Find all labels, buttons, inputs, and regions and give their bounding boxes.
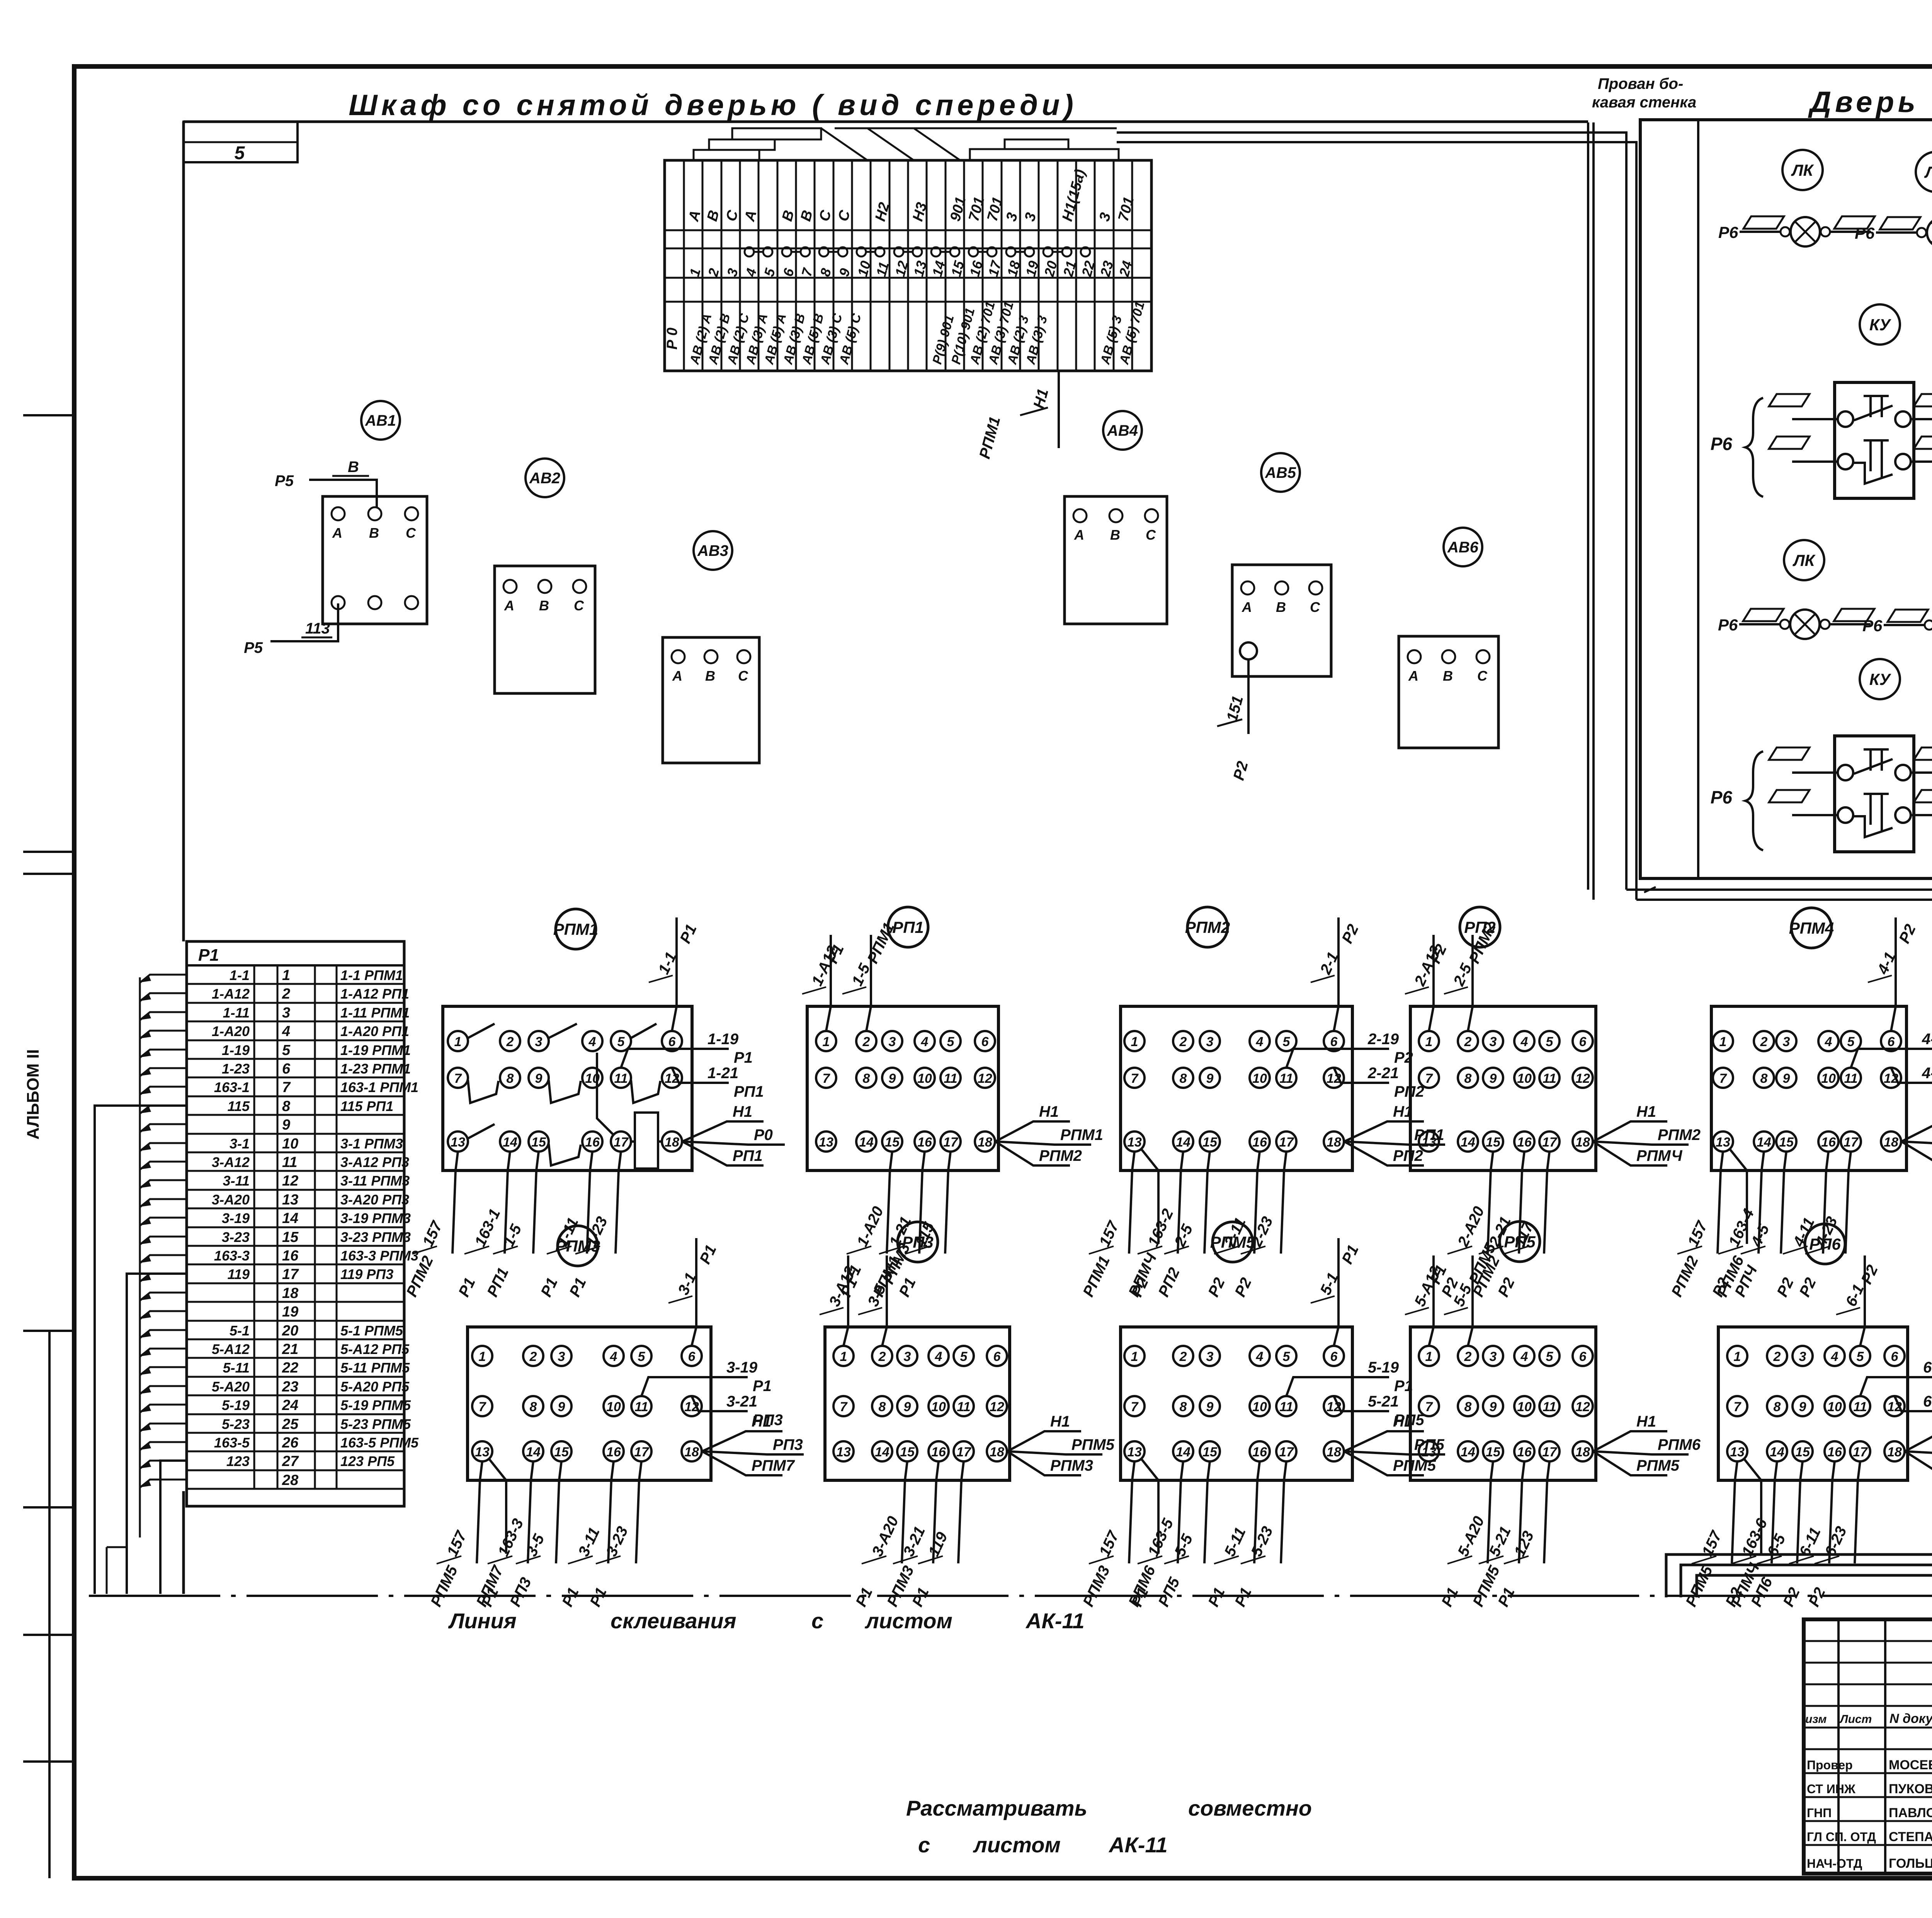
svg-text:3-А20 РП3: 3-А20 РП3 [340,1192,409,1208]
svg-text:АВ2: АВ2 [529,470,560,487]
svg-text:18: 18 [1884,1135,1898,1150]
svg-text:17: 17 [1279,1135,1294,1150]
svg-text:16: 16 [1827,1445,1842,1459]
svg-text:4: 4 [935,1349,942,1364]
wire [1334,1238,1338,1346]
svg-text:6: 6 [1330,1349,1338,1364]
svg-text:11: 11 [944,1071,957,1086]
wire [1905,1451,1932,1454]
svg-text:115: 115 [228,1098,250,1114]
svg-text:123: 123 [226,1453,250,1469]
svg-text:13: 13 [1127,1135,1142,1150]
svg-text:9: 9 [1206,1400,1214,1414]
svg-text:23: 23 [282,1379,298,1395]
svg-text:5-11 РПМ5: 5-11 РПМ5 [340,1360,410,1376]
svg-text:5: 5 [960,1349,968,1364]
svg-text:5: 5 [1283,1349,1291,1364]
svg-text:Лист: Лист [1839,1713,1872,1726]
wire [1281,1461,1286,1563]
svg-text:10: 10 [917,1071,932,1086]
wire [882,1255,887,1346]
wire [1178,1461,1183,1563]
svg-text:3: 3 [535,1035,543,1049]
svg-text:1-23: 1-23 [222,1061,250,1077]
wire [1286,1049,1389,1068]
switch label KU 2 [1860,659,1900,699]
svg-text:15: 15 [885,1135,900,1150]
automat АВ6 [1444,528,1482,566]
svg-text:163-5 РПМ5: 163-5 РПМ5 [340,1435,419,1451]
svg-text:РПМЧ: РПМЧ [1636,1147,1682,1164]
wire [672,917,677,1031]
svg-text:РПМ7: РПМ7 [752,1457,795,1474]
relay coil [635,1113,658,1169]
svg-text:ЛЗ: ЛЗ [1924,163,1932,181]
svg-text:16: 16 [1517,1135,1532,1150]
svg-text:АВ4: АВ4 [1107,422,1138,439]
svg-text:1: 1 [1131,1035,1138,1049]
svg-text:18: 18 [1575,1135,1590,1150]
wire [1254,1152,1260,1254]
svg-text:Провер: Провер [1807,1758,1853,1772]
contact [549,1080,581,1103]
svg-text:5-1: 5-1 [230,1323,250,1339]
svg-text:7: 7 [1131,1400,1139,1414]
svg-text:ПУКОВА: ПУКОВА [1889,1782,1932,1796]
svg-text:С: С [1310,599,1320,615]
svg-text:24: 24 [282,1397,298,1413]
svg-text:А: А [672,668,682,684]
svg-text:14: 14 [859,1135,874,1150]
svg-text:16: 16 [282,1248,299,1264]
svg-text:РПМ5: РПМ5 [1210,1233,1255,1251]
relay РП3 [898,1222,938,1262]
wire [1901,1121,1932,1142]
svg-text:20: 20 [282,1323,298,1339]
wire [489,1459,506,1554]
svg-text:14: 14 [1176,1135,1190,1150]
svg-text:17: 17 [956,1445,972,1459]
svg-text:5-А20: 5-А20 [212,1379,250,1395]
terminal table P1 stub wires [140,975,187,982]
svg-text:КУ: КУ [1869,316,1892,334]
svg-text:113: 113 [305,620,330,637]
svg-text:С: С [1146,527,1156,543]
svg-text:РПМ2: РПМ2 [1039,1147,1082,1164]
svg-text:12: 12 [1575,1400,1590,1414]
wire [1254,1461,1260,1563]
svg-text:13: 13 [1730,1445,1745,1459]
svg-text:13: 13 [1422,1445,1436,1459]
svg-text:СТЕПАНЕНКО: СТЕПАНЕНКО [1889,1830,1932,1844]
svg-text:3-А12: 3-А12 [212,1154,250,1170]
svg-text:15: 15 [282,1229,299,1245]
wire [1759,1152,1764,1254]
corner box [184,122,298,162]
svg-text:15: 15 [1779,1135,1794,1150]
title block [1804,1619,1932,1874]
svg-text:Р1: Р1 [753,1378,772,1395]
wire [1468,935,1473,1031]
svg-text:9: 9 [1206,1071,1214,1086]
svg-text:С: С [738,668,748,684]
svg-text:9: 9 [282,1117,290,1133]
cabinet left edge lower [182,1491,185,1594]
svg-text:10: 10 [1517,1071,1532,1086]
svg-text:119: 119 [228,1266,250,1282]
svg-text:10: 10 [931,1400,946,1414]
svg-text:С: С [574,598,584,613]
harness wire to door 1 [1117,133,1626,890]
wire [505,1152,510,1254]
svg-text:10: 10 [606,1400,621,1414]
svg-text:1-А12: 1-А12 [212,986,250,1002]
wire [1344,1121,1424,1142]
wire [844,1255,848,1346]
svg-text:9: 9 [904,1400,911,1414]
svg-text:27: 27 [282,1453,299,1470]
wire [1141,1149,1158,1244]
svg-text:В: В [369,525,379,541]
svg-text:18: 18 [1327,1135,1341,1150]
harness wire to door 2 [1117,142,1636,900]
wire [1891,917,1896,1031]
cabinet duct line 2 [1592,122,1595,900]
svg-text:ПАВЛОВА: ПАВЛОВА [1889,1806,1932,1820]
svg-text:3: 3 [1490,1349,1497,1364]
svg-text:10: 10 [1821,1071,1836,1086]
contact [549,1024,577,1038]
wire [1344,1142,1424,1165]
svg-text:АК-11: АК-11 [1108,1833,1168,1857]
svg-text:5-19 РПМ5: 5-19 РПМ5 [340,1397,411,1413]
svg-text:7: 7 [1131,1071,1139,1086]
wire [1129,1152,1134,1254]
svg-text:12: 12 [978,1071,992,1086]
svg-text:2: 2 [862,1035,870,1049]
wire [1855,1461,1860,1563]
svg-text:СТ ИНЖ: СТ ИНЖ [1807,1782,1856,1796]
svg-text:РПМ1: РПМ1 [1060,1126,1103,1143]
wire [945,1152,951,1254]
svg-text:с: с [811,1609,823,1633]
svg-text:17: 17 [1542,1445,1558,1459]
wire [995,1142,1091,1145]
wire [692,1238,696,1346]
wire H1 from strip [1058,371,1060,448]
svg-text:15: 15 [531,1135,546,1150]
svg-text:5: 5 [235,143,245,163]
svg-text:14: 14 [503,1135,517,1150]
svg-text:19: 19 [282,1304,298,1320]
svg-text:15: 15 [1486,1135,1501,1150]
svg-text:7: 7 [1734,1400,1742,1414]
AB5 extra terminal [1240,642,1257,659]
automat АВ2 [526,459,564,497]
svg-text:листом: листом [973,1833,1061,1857]
wire [1429,1255,1434,1346]
svg-text:3: 3 [1783,1035,1790,1049]
terminal table P1 [187,941,404,1506]
svg-text:1: 1 [454,1035,462,1049]
svg-text:1: 1 [479,1349,486,1364]
svg-text:3-1 РПМ3: 3-1 РПМ3 [340,1136,403,1152]
svg-text:1: 1 [840,1349,847,1364]
svg-text:17: 17 [634,1445,650,1459]
wire [1593,1451,1689,1454]
svg-text:9: 9 [535,1071,543,1086]
door panel inner edge [1697,120,1699,878]
svg-text:16: 16 [1252,1135,1267,1150]
svg-text:ЛК: ЛК [1793,551,1816,569]
wire [702,1451,782,1475]
wire [452,1152,458,1254]
svg-text:6: 6 [688,1349,696,1364]
svg-text:4: 4 [610,1349,617,1364]
svg-text:7: 7 [454,1071,463,1086]
svg-text:5-А12: 5-А12 [212,1341,250,1357]
svg-text:5-23: 5-23 [222,1416,250,1432]
wire [1851,1049,1932,1068]
svg-text:ГОЛЬЦМАН: ГОЛЬЦМАН [1889,1856,1932,1871]
svg-text:18: 18 [684,1445,699,1459]
cabinet left edge [182,122,185,941]
svg-text:3-11 РПМ3: 3-11 РПМ3 [340,1173,410,1189]
svg-text:4: 4 [1256,1349,1264,1364]
svg-text:6: 6 [1579,1349,1587,1364]
svg-text:РПМ4: РПМ4 [1789,919,1834,937]
wire [1901,1142,1932,1165]
wire [1519,1461,1524,1563]
svg-text:9: 9 [889,1071,896,1086]
bottom bus wire 1 [1666,1554,1932,1597]
svg-text:2: 2 [1464,1035,1472,1049]
svg-text:1: 1 [1734,1349,1741,1364]
svg-text:8: 8 [1180,1071,1187,1086]
bottom bus wire 2 [1681,1565,1932,1597]
svg-text:1-21: 1-21 [707,1065,738,1082]
svg-text:3-21: 3-21 [726,1393,757,1410]
svg-text:3-23 РПМ3: 3-23 РПМ3 [340,1229,411,1245]
svg-text:14: 14 [1757,1135,1771,1150]
wire [1334,917,1338,1031]
wire [672,1068,729,1083]
relay РП2 [1460,907,1500,947]
svg-text:18: 18 [1327,1445,1341,1459]
svg-text:5-21: 5-21 [1368,1393,1399,1410]
svg-text:13: 13 [451,1135,465,1150]
svg-text:15: 15 [1202,1135,1218,1150]
wire P5-B to AB1 [309,480,377,507]
svg-text:1-19: 1-19 [222,1042,250,1058]
wire [1488,1461,1493,1563]
svg-text:8: 8 [1464,1071,1472,1086]
svg-text:7: 7 [1425,1400,1434,1414]
svg-text:2: 2 [282,986,290,1002]
lamp label LK 2 [1784,540,1824,580]
svg-text:6: 6 [668,1035,676,1049]
wire [995,1121,1070,1142]
svg-text:3: 3 [1206,1035,1214,1049]
svg-text:5-23 РПМ5: 5-23 РПМ5 [340,1416,411,1432]
svg-text:1: 1 [282,967,290,984]
svg-text:Р6: Р6 [1718,223,1738,241]
svg-text:РПМ3: РПМ3 [1050,1457,1093,1474]
wire [1141,1459,1158,1554]
wire [1007,1451,1081,1475]
svg-text:5-11: 5-11 [223,1360,250,1376]
wire [1730,1149,1747,1244]
svg-text:РПМ1: РПМ1 [553,920,599,938]
wire [1129,1461,1134,1563]
svg-text:РП1: РП1 [734,1083,764,1100]
wire [682,1142,785,1145]
svg-text:1: 1 [1719,1035,1727,1049]
svg-text:7: 7 [282,1079,291,1096]
svg-text:АВ5: АВ5 [1265,464,1296,481]
svg-text:11: 11 [1853,1400,1867,1414]
svg-text:15: 15 [1202,1445,1218,1459]
wire [533,1152,539,1254]
svg-text:13: 13 [819,1135,833,1150]
svg-text:1-А12 РП1: 1-А12 РП1 [340,986,409,1002]
svg-text:склеивания: склеивания [611,1609,736,1633]
svg-text:1-А20 РП1: 1-А20 РП1 [340,1023,409,1039]
svg-text:28: 28 [282,1472,299,1488]
svg-text:7: 7 [479,1400,487,1414]
svg-text:6: 6 [993,1349,1001,1364]
wire [1344,1142,1445,1145]
svg-text:Н1: Н1 [1050,1413,1070,1430]
svg-text:2: 2 [878,1349,886,1364]
svg-text:13: 13 [475,1445,490,1459]
svg-text:25: 25 [282,1416,299,1432]
svg-text:2: 2 [1464,1349,1472,1364]
svg-text:5-А20 РП5: 5-А20 РП5 [340,1379,410,1395]
svg-text:1-23 РПМ1: 1-23 РПМ1 [340,1061,411,1077]
svg-text:Н1: Н1 [1039,1103,1059,1120]
svg-text:В: В [348,459,359,476]
svg-text:3: 3 [1206,1349,1214,1364]
svg-text:18: 18 [990,1445,1004,1459]
svg-text:5-1 РПМ5: 5-1 РПМ5 [340,1323,403,1339]
svg-text:5: 5 [638,1349,646,1364]
svg-text:15: 15 [900,1445,915,1459]
svg-text:6: 6 [1579,1035,1587,1049]
svg-text:6-21: 6-21 [1923,1393,1932,1410]
svg-text:13: 13 [1422,1135,1436,1150]
svg-text:9: 9 [558,1400,565,1414]
svg-text:Р6: Р6 [1862,617,1883,635]
fold marks [23,414,74,416]
svg-text:3-1: 3-1 [230,1136,250,1152]
svg-text:18: 18 [282,1285,299,1301]
wire [528,1461,533,1563]
svg-text:10: 10 [1252,1071,1267,1086]
svg-text:17: 17 [943,1135,959,1150]
svg-text:С: С [406,525,416,541]
relay РПМ2 [1187,907,1228,947]
wire [1281,1152,1286,1254]
svg-text:4: 4 [588,1035,596,1049]
svg-text:РПМ3: РПМ3 [555,1237,600,1255]
svg-text:123 РП5: 123 РП5 [340,1453,395,1469]
svg-text:А: А [1074,527,1084,543]
wire [1781,1152,1786,1254]
svg-text:1-А20: 1-А20 [212,1023,250,1039]
svg-text:МОСЕЕНКО: МОСЕЕНКО [1889,1758,1932,1772]
wire [1895,1396,1932,1411]
svg-text:Рассматривать: Рассматривать [906,1796,1087,1820]
left bus wires [95,1106,187,1594]
wire [1344,1451,1445,1454]
svg-text:5: 5 [1283,1035,1291,1049]
svg-text:8: 8 [863,1071,870,1086]
wire [1718,1152,1723,1254]
wire [1429,935,1434,1031]
svg-text:163-1 РПМ1: 163-1 РПМ1 [340,1079,418,1095]
svg-text:14: 14 [1770,1445,1784,1459]
wire [1519,1152,1524,1254]
svg-text:5: 5 [1546,1349,1554,1364]
svg-text:РПМ2: РПМ2 [1185,918,1230,936]
svg-text:4: 4 [921,1035,929,1049]
svg-text:1-1: 1-1 [230,967,250,983]
svg-text:С: С [1477,668,1488,684]
svg-text:ГНП: ГНП [1807,1806,1832,1820]
svg-text:9: 9 [1799,1400,1806,1414]
svg-text:РПМ5: РПМ5 [1636,1457,1680,1474]
svg-text:11: 11 [1279,1400,1293,1414]
relay РПМ3 [558,1226,598,1266]
svg-text:совместно: совместно [1188,1796,1312,1820]
relay РПМ4 [1791,908,1832,948]
svg-text:11: 11 [634,1400,648,1414]
svg-text:6: 6 [981,1035,989,1049]
contact [468,1124,495,1138]
svg-text:5: 5 [1857,1349,1864,1364]
svg-text:4: 4 [1520,1035,1528,1049]
wire [1593,1142,1689,1145]
svg-text:3: 3 [889,1035,896,1049]
wire [1593,1121,1667,1142]
wire [1334,1396,1389,1411]
svg-text:А: А [1242,599,1252,615]
svg-text:16: 16 [1821,1135,1836,1150]
control switch KU [1835,382,1914,498]
svg-text:12: 12 [282,1173,298,1189]
svg-text:2: 2 [1773,1349,1781,1364]
svg-text:13: 13 [836,1445,851,1459]
svg-text:3-11: 3-11 [223,1173,250,1189]
svg-text:Н1: Н1 [1636,1413,1656,1430]
harness wire below door 2 [1636,900,1932,1565]
svg-text:РПМ2: РПМ2 [1658,1126,1701,1143]
automat АВ1 [361,401,400,440]
automat АВ4 [1103,411,1142,450]
wire [887,1152,892,1254]
contact [468,1024,495,1038]
svg-text:11: 11 [1279,1071,1293,1086]
wire [636,1461,641,1563]
svg-text:4: 4 [282,1023,290,1040]
svg-text:6: 6 [1330,1035,1338,1049]
svg-text:1-1 РПМ1: 1-1 РПМ1 [340,967,403,983]
svg-text:7: 7 [823,1071,831,1086]
svg-text:5: 5 [1546,1035,1554,1049]
wire [1468,1255,1473,1346]
cabinet top edge [184,121,1588,123]
